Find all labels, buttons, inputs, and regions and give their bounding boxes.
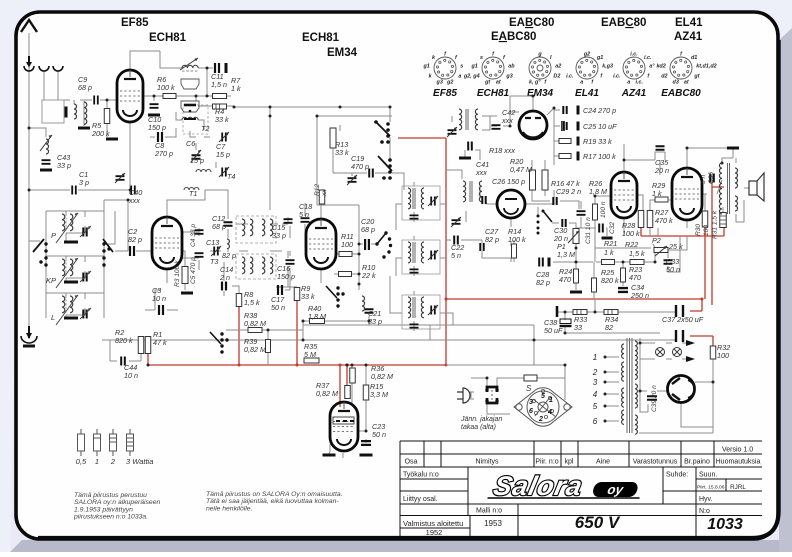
svg-text:R17 100 k: R17 100 k: [583, 152, 616, 161]
capacitor C14: [222, 282, 226, 291]
capacitor C40: [131, 186, 135, 195]
svg-text:gt: gt: [693, 73, 699, 79]
svg-text:C29 2 n: C29 2 n: [556, 187, 581, 196]
svg-text:T4: T4: [227, 172, 235, 181]
RF coil: [84, 102, 87, 124]
svg-text:Valmistus aloitettu: Valmistus aloitettu: [403, 519, 463, 528]
svg-text:Br.paino: Br.paino: [684, 459, 710, 466]
svg-text:Huomautuksia: Huomautuksia: [716, 459, 761, 466]
svg-text:T1: T1: [189, 189, 197, 198]
IF transformer stage 3: [402, 295, 440, 329]
svg-text:Suhde:: Suhde:: [666, 472, 688, 479]
capacitor C12: [224, 222, 233, 225]
svg-text:3 p: 3 p: [79, 178, 89, 187]
svg-text:D2: D2: [553, 73, 560, 79]
capacitor C4: [195, 230, 204, 234]
mains transformer: [627, 338, 632, 433]
resistor R36: [350, 368, 356, 383]
svg-text:100 n: 100 n: [600, 201, 607, 218]
svg-text:P2: P2: [652, 236, 661, 245]
svg-text:R18 xxx: R18 xxx: [489, 146, 515, 155]
svg-text:C13: C13: [206, 238, 219, 247]
trimmer C6b: [191, 150, 201, 162]
tube socket EM34: [527, 52, 561, 100]
tube socket EL41: [566, 52, 613, 100]
svg-text:g1: g1: [422, 63, 429, 69]
Salora Oy logo: [487, 470, 646, 501]
capacitor C35: [656, 146, 665, 149]
capacitor C15: [284, 219, 293, 223]
svg-text:R30: R30: [695, 224, 702, 236]
page shadow right: [779, 28, 792, 552]
capacitor C43: [42, 160, 51, 164]
svg-text:5 M: 5 M: [304, 350, 316, 359]
svg-text:470: 470: [559, 275, 571, 284]
tube socket AZ41: [613, 52, 655, 100]
svg-text:C39 20 n: C39 20 n: [651, 385, 658, 412]
svg-text:s: s: [480, 55, 483, 61]
svg-text:Osa: Osa: [405, 459, 418, 466]
IF transformer stage 2: [402, 240, 440, 274]
loop antenna frame: [42, 100, 64, 123]
ground C43: [40, 169, 52, 172]
svg-text:820 k: 820 k: [115, 336, 133, 345]
capacitor C21: [365, 309, 374, 312]
capacitor C25: [563, 122, 566, 130]
svg-text:820 k: 820 k: [601, 276, 619, 285]
resistor R23: [621, 268, 626, 282]
resistor R19: [559, 139, 571, 144]
capacitor C19: [369, 169, 373, 178]
svg-text:150 p: 150 p: [148, 123, 166, 132]
svg-text:25 k: 25 k: [668, 242, 683, 251]
capacitor C33: [664, 260, 673, 263]
capacitor C5: [195, 253, 204, 257]
antenna: [21, 20, 37, 32]
capacitor C11: [215, 63, 219, 73]
svg-text:1,3 M: 1,3 M: [557, 250, 575, 259]
svg-text:T2: T2: [201, 124, 209, 133]
svg-text:1,8 M: 1,8 M: [589, 187, 607, 196]
IF transformer T2 box: [183, 105, 208, 134]
ground C32: [602, 237, 613, 240]
output transformer: [719, 163, 722, 214]
svg-text:1 k: 1 k: [231, 84, 241, 93]
capacitor C1: [72, 186, 76, 195]
ground R24: [570, 291, 582, 294]
tube V8 EL41 output: [330, 402, 358, 451]
svg-text:6: 6: [529, 408, 533, 415]
tube V7 EL41: [672, 168, 702, 220]
resistor R33: [573, 310, 587, 315]
capacitor C16: [286, 260, 295, 264]
resistor R32: [710, 346, 716, 359]
tube socket EF85: [422, 52, 463, 100]
svg-text:g1: g1: [596, 55, 603, 61]
resistor R29: [655, 197, 668, 202]
capacitor C36: [710, 174, 714, 183]
svg-text:82 p: 82 p: [536, 278, 550, 287]
svg-text:C24 270 p: C24 270 p: [583, 106, 616, 115]
rotated labels: [174, 172, 719, 412]
svg-text:1,5 k: 1,5 k: [629, 249, 645, 258]
svg-text:g3: g3: [436, 80, 443, 86]
resistor R16: [542, 170, 548, 190]
capacitor C20: [365, 239, 369, 250]
svg-text:R22: R22: [625, 240, 638, 249]
svg-text:15 p: 15 p: [190, 156, 204, 165]
svg-text:R3 100 k: R3 100 k: [174, 260, 181, 287]
voltage selector contacts: [487, 387, 497, 392]
svg-text:33 k: 33 k: [301, 292, 315, 301]
svg-text:at: at: [496, 80, 501, 86]
svg-text:3: 3: [529, 399, 533, 406]
svg-text:5 n: 5 n: [299, 210, 309, 219]
IF transformer T6: [236, 254, 276, 279]
svg-text:2: 2: [592, 368, 598, 377]
svg-text:1033: 1033: [707, 516, 743, 533]
capacitor C44: [121, 357, 125, 366]
svg-text:82 p: 82 p: [128, 235, 142, 244]
svg-text:k,g3: k,g3: [602, 63, 613, 69]
svg-text:R21: R21: [604, 239, 617, 248]
resistor R14: [512, 244, 517, 258]
svg-text:47 k: 47 k: [153, 338, 167, 347]
tuner band L: [51, 295, 91, 325]
svg-text:68 p: 68 p: [212, 222, 226, 231]
svg-text:33 p: 33 p: [368, 317, 382, 326]
IF transformer T1 top coil: [182, 65, 198, 68]
trimmer T9a: [452, 220, 461, 224]
svg-text:2: 2: [538, 416, 543, 423]
svg-text:C26 150 p: C26 150 p: [492, 177, 525, 186]
trimmer coil: [46, 139, 49, 154]
svg-text:100 k: 100 k: [622, 229, 640, 238]
capacitor C23: [361, 441, 371, 445]
switch det: [543, 211, 552, 222]
svg-text:d2: d2: [661, 73, 667, 79]
svg-text:RJRL: RJRL: [730, 484, 746, 491]
switch S4: [220, 332, 223, 335]
svg-text:i.c.: i.c.: [566, 73, 574, 79]
capacitor C24: [563, 106, 566, 114]
svg-text:piirustukseen n:o 1033a.: piirustukseen n:o 1033a.: [73, 514, 148, 521]
svg-text:0,82 M: 0,82 M: [316, 389, 338, 398]
capacitor C3: [159, 305, 163, 315]
svg-text:5 n: 5 n: [451, 251, 461, 260]
svg-text:ECH81: ECH81: [302, 32, 340, 44]
resistor R30: [702, 211, 708, 227]
svg-text:R19 33 k: R19 33 k: [583, 137, 612, 146]
loop antenna bar: [65, 107, 68, 118]
svg-text:g2, g4: g2, g4: [463, 73, 480, 79]
resistor R20: [530, 170, 536, 190]
capacitor C26: [482, 196, 485, 204]
ground RF coil: [78, 127, 90, 130]
svg-text:100: 100: [341, 240, 353, 249]
svg-text:0,82 M: 0,82 M: [244, 345, 266, 354]
dial lamp 1: [656, 348, 665, 357]
arrow out 2: [686, 356, 695, 362]
svg-text:EF85: EF85: [433, 88, 457, 99]
fuse S: [524, 375, 537, 381]
svg-text:Malli n:o: Malli n:o: [476, 508, 502, 515]
resistor R11: [339, 252, 352, 257]
svg-text:Jänn. jakajan: Jänn. jakajan: [460, 416, 502, 423]
capacitor C42: [492, 125, 501, 129]
IF transformer T5: [236, 216, 276, 243]
tube V2 ECH81: [152, 217, 182, 269]
wattage legend: [76, 429, 154, 466]
resistor R21: [602, 260, 615, 265]
resistor R26: [593, 204, 598, 220]
svg-text:33 k: 33 k: [335, 148, 349, 157]
tube V9 AZ41 rectifier: [668, 376, 695, 403]
svg-text:EABC80: EABC80: [601, 17, 646, 29]
anode supply wire red bus: [148, 138, 724, 407]
resistor R2: [138, 337, 144, 354]
svg-text:10 n: 10 n: [152, 294, 166, 303]
tube V1 EF85: [117, 70, 143, 122]
capacitor C31: [577, 211, 586, 215]
resistor R6: [163, 94, 176, 99]
resistor R27: [647, 211, 653, 228]
svg-text:100 k: 100 k: [157, 83, 175, 92]
note text middle: [206, 491, 343, 512]
capacitor C18: [301, 218, 310, 222]
svg-text:2: 2: [110, 457, 116, 466]
tube V4 EABC80 triode: [497, 190, 525, 218]
svg-text:82 p: 82 p: [485, 235, 499, 244]
svg-text:C32: C32: [609, 222, 616, 234]
svg-text:82 p: 82 p: [222, 251, 236, 260]
svg-text:Liittyy osal.: Liittyy osal.: [403, 496, 438, 503]
tube V6 EABC80: [611, 172, 637, 218]
trimmer T8a: [448, 130, 457, 134]
svg-text:5 n: 5 n: [700, 175, 707, 184]
mains plug: [457, 392, 463, 399]
tuner band P: [51, 213, 91, 243]
resistor R3: [182, 267, 188, 284]
svg-text:22 k: 22 k: [361, 271, 376, 280]
resistor R38: [248, 328, 262, 333]
capacitor C41: [468, 142, 472, 151]
svg-text:C6: C6: [186, 139, 195, 148]
svg-text:a2: a2: [555, 63, 561, 69]
trimmer T4: [222, 168, 226, 177]
resistor R31: [720, 213, 727, 228]
svg-text:EF85: EF85: [121, 17, 149, 29]
svg-text:4: 4: [547, 409, 552, 416]
svg-text:EM34: EM34: [327, 47, 358, 59]
svg-text:1: 1: [549, 397, 553, 404]
svg-text:nelle henkilölle.: nelle henkilölle.: [206, 505, 253, 512]
resistor R4: [213, 104, 227, 109]
svg-text:AZ41: AZ41: [621, 88, 647, 99]
resistor R15: [363, 385, 369, 400]
note text left: [73, 492, 160, 521]
tube socket rear view: [514, 388, 572, 426]
svg-text:Tämä piirustus on SALORA Oy:n: Tämä piirustus on SALORA Oy:n omaisuutta…: [206, 491, 343, 498]
svg-text:15 p: 15 p: [216, 150, 230, 159]
svg-text:at: at: [684, 80, 689, 86]
svg-text:a: a: [458, 73, 461, 79]
svg-text:k, g°: k, g°: [529, 80, 541, 86]
resistor R22: [630, 260, 644, 265]
svg-text:i.c.: i.c.: [630, 52, 638, 58]
svg-text:3 Wattia: 3 Wattia: [126, 457, 153, 466]
svg-text:S: S: [526, 384, 532, 393]
svg-text:Piir. n:o: Piir. n:o: [535, 459, 558, 466]
ground C10: [148, 114, 160, 117]
dial lamp 2: [673, 348, 682, 357]
resistor R39: [266, 340, 271, 353]
svg-text:2 n: 2 n: [219, 273, 230, 282]
capacitor C29: [553, 197, 556, 205]
svg-text:0,47 M: 0,47 M: [510, 165, 532, 174]
ground C23: [360, 454, 373, 457]
svg-text:5: 5: [541, 393, 545, 400]
svg-text:Tämä piirustus perustuu: Tämä piirustus perustuu: [74, 492, 147, 499]
svg-text:0,5: 0,5: [76, 457, 87, 466]
svg-text:takaa (alta): takaa (alta): [461, 424, 496, 431]
svg-text:g2: g2: [583, 52, 590, 58]
svg-text:SALORA oy:n alkuperäiseen: SALORA oy:n alkuperäiseen: [74, 499, 160, 506]
svg-text:kpl: kpl: [565, 459, 574, 466]
svg-text:EABC80: EABC80: [509, 17, 554, 29]
capacitor C27: [480, 243, 483, 251]
svg-text:EL41: EL41: [675, 17, 703, 29]
tuner band KP: [46, 258, 91, 288]
resistor R25: [592, 278, 597, 292]
page shadow bottom: [10, 540, 792, 552]
resistor R8: [236, 294, 242, 307]
svg-text:33 p: 33 p: [272, 231, 286, 240]
capacitor C30: [562, 219, 565, 227]
IF transformer T9: [463, 181, 466, 202]
chassis C38: [556, 306, 559, 317]
band switch left: [44, 242, 47, 245]
ground output: [727, 147, 739, 150]
resistor R7: [213, 94, 227, 99]
svg-text:R12: R12: [314, 184, 321, 196]
svg-text:3,3 M: 3,3 M: [370, 390, 388, 399]
capacitor C9: [94, 96, 98, 105]
svg-text:5: 5: [593, 402, 598, 411]
svg-text:g: g: [537, 52, 542, 58]
svg-text:0,82 M: 0,82 M: [244, 319, 266, 328]
svg-text:50 n: 50 n: [372, 430, 386, 439]
resistor R13: [330, 128, 336, 148]
svg-text:470 p: 470 p: [351, 162, 369, 171]
svg-text:Versio 1.0: Versio 1.0: [722, 447, 753, 454]
svg-text:a: a: [580, 80, 583, 86]
svg-text:Hyv.: Hyv.: [699, 496, 713, 503]
svg-text:1,8 M: 1,8 M: [308, 312, 326, 321]
svg-text:33: 33: [574, 323, 582, 332]
antenna plugs: [24, 66, 34, 71]
svg-text:a: a: [627, 80, 630, 86]
coupling coil: [74, 104, 77, 119]
svg-text:kd2: kd2: [656, 63, 665, 69]
band switch right: [102, 242, 105, 245]
svg-text:1: 1: [95, 457, 99, 466]
coil C13: [227, 239, 229, 249]
resistor R34: [604, 310, 618, 315]
svg-text:i.c.: i.c.: [644, 55, 652, 61]
svg-text:g2: g2: [446, 80, 453, 86]
wire junctions: [28, 127, 31, 130]
title block table: [400, 440, 762, 442]
svg-text:T3: T3: [210, 257, 218, 266]
resistor R24: [574, 269, 579, 283]
resistor R37: [345, 386, 351, 399]
svg-text:1953: 1953: [484, 519, 502, 528]
trimmer C19b: [348, 178, 357, 182]
svg-text:kt,d1,d2: kt,d1,d2: [696, 63, 716, 69]
tube V3 ECH81b: [306, 219, 336, 269]
svg-text:1 k: 1 k: [652, 189, 662, 198]
trimmer C40b: [116, 176, 125, 180]
svg-text:Nimitys: Nimitys: [476, 459, 499, 466]
svg-text:Tätä ei saa jäljentää, eikä lu: Tätä ei saa jäljentää, eikä luovuttaa ko…: [206, 498, 339, 505]
svg-text:1.9.1953 päivättyyn: 1.9.1953 päivättyyn: [74, 506, 133, 513]
switch bank upper: [386, 122, 390, 126]
svg-text:1 k: 1 k: [604, 248, 614, 257]
capacitor C8: [158, 132, 162, 142]
svg-text:10 n: 10 n: [124, 371, 138, 380]
svg-text:N:o: N:o: [699, 508, 710, 515]
svg-text:KP: KP: [46, 276, 56, 285]
potentiometer P2: [654, 248, 668, 253]
svg-text:Piirt. 15.8.06: Piirt. 15.8.06: [697, 485, 725, 491]
svg-text:33 p: 33 p: [57, 161, 71, 170]
svg-text:AZ41: AZ41: [674, 31, 703, 43]
svg-text:470: 470: [629, 273, 641, 282]
svg-text:xx: xx: [321, 189, 328, 197]
svg-text:i.c.: i.c.: [613, 73, 621, 79]
svg-text:L: L: [51, 313, 55, 322]
svg-text:33 k: 33 k: [215, 115, 229, 124]
resistor R28: [638, 211, 644, 228]
capacitor C37: [676, 305, 683, 317]
capacitor C2: [130, 246, 134, 256]
capacitor C34: [618, 288, 628, 292]
ground C41: [459, 157, 471, 160]
svg-text:Aine: Aine: [596, 459, 610, 466]
svg-text:270 p: 270 p: [154, 149, 173, 158]
svg-text:gt: gt: [484, 80, 490, 86]
ground R5: [106, 138, 118, 141]
svg-text:ECH81: ECH81: [477, 88, 510, 99]
svg-text:Työkalu n:o: Työkalu n:o: [403, 472, 439, 479]
coil T4: [196, 170, 211, 173]
svg-text:C4 33 p: C4 33 p: [190, 224, 197, 247]
svg-text:68 p: 68 p: [361, 225, 375, 234]
svg-text:1,5 n: 1,5 n: [211, 80, 227, 89]
ground V8: [323, 454, 336, 457]
svg-text:100: 100: [717, 351, 729, 360]
red junctions: [238, 364, 241, 367]
IF transformer T1 body: [181, 79, 199, 89]
switch S3: [336, 286, 339, 289]
capacitor C6: [192, 155, 201, 158]
capacitor C32: [599, 224, 603, 233]
svg-text:xxx: xxx: [501, 116, 513, 125]
resistor R35: [304, 358, 319, 363]
capacitor C10: [150, 104, 159, 108]
svg-text:ab: ab: [508, 63, 515, 69]
